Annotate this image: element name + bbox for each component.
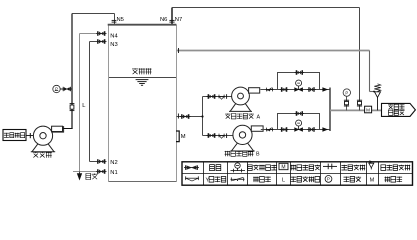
svg-text:B: B bbox=[256, 152, 260, 158]
wire pump A discharge run bbox=[260, 89, 330, 91]
pump A block valve 1 bbox=[280, 87, 289, 92]
wire relief outlet elbow bbox=[370, 91, 376, 93]
label 地沟 bbox=[86, 174, 98, 180]
pump 氨水供给泵A bbox=[229, 87, 260, 111]
wire level line N3-N2 vertical bbox=[89, 42, 91, 162]
flow arrow into header (A) bbox=[322, 87, 328, 91]
svg-text:M: M bbox=[366, 108, 370, 113]
wire recirculation drop bbox=[359, 8, 361, 111]
legend label 入孔门 bbox=[385, 177, 403, 183]
legend label 压力安全阀 bbox=[381, 165, 410, 171]
wire N1 run bbox=[73, 171, 96, 173]
wire tank outlet bbox=[177, 116, 204, 118]
svg-text:N4: N4 bbox=[110, 33, 118, 39]
pressure gauge PG1 on riser bbox=[53, 85, 60, 92]
svg-text:A: A bbox=[257, 114, 261, 120]
wire pump A suction bbox=[203, 96, 232, 98]
svg-text:P: P bbox=[345, 90, 348, 95]
wire tank vapor return top run bbox=[172, 7, 360, 9]
svg-text:N7: N7 bbox=[175, 17, 182, 23]
flange N7 bbox=[169, 20, 174, 22]
pump 氨水供给泵B bbox=[230, 125, 263, 151]
legend sym safety valve bbox=[369, 161, 374, 170]
legend label 液位变送计 bbox=[290, 177, 319, 183]
flow arrow into header (B) bbox=[322, 127, 328, 131]
pump A check valve bbox=[266, 88, 274, 92]
label 卸车泵 bbox=[33, 152, 52, 158]
wire pump B discharge run bbox=[261, 129, 330, 131]
pump B suction strainer bbox=[218, 134, 225, 139]
pump A suction strainer bbox=[218, 95, 225, 100]
svg-text:N2: N2 bbox=[110, 160, 117, 166]
pump A bypass loop bbox=[278, 73, 320, 90]
legend sym check valve bbox=[231, 177, 245, 181]
legend label 压力表 bbox=[344, 177, 362, 183]
inline fitting on riser bbox=[70, 104, 75, 111]
svg-text:N1: N1 bbox=[110, 170, 117, 176]
wire level line N4-N1 vertical bbox=[79, 34, 81, 172]
wire N5 riser bbox=[114, 14, 116, 25]
valve at N4 bbox=[96, 31, 107, 36]
pump A block valve 2 bbox=[307, 87, 316, 92]
svg-text:L: L bbox=[282, 177, 285, 183]
pump 卸车泵 unloading pump bbox=[31, 126, 64, 152]
discharge nozzle bbox=[52, 126, 63, 131]
pressure gauge PG2 bbox=[343, 89, 350, 96]
pump B bypass loop bbox=[278, 114, 320, 130]
wire gauge stem bbox=[346, 96, 348, 110]
legend table bbox=[182, 162, 413, 185]
tank left wall bbox=[108, 25, 110, 182]
wire fill line top run bbox=[72, 13, 115, 15]
wire gauge branch bbox=[60, 88, 72, 90]
legend sym Y strainer bbox=[185, 176, 199, 181]
pump B bypass valve bbox=[295, 111, 305, 116]
svg-text:N3: N3 bbox=[110, 42, 117, 48]
svg-text:M: M bbox=[181, 134, 186, 140]
drain arrow to trench bbox=[77, 172, 81, 180]
wire N4 stub bbox=[80, 33, 97, 35]
pump B check valve bbox=[266, 128, 274, 132]
label 氨水供给泵A bbox=[225, 114, 254, 119]
legend sym ball valve bbox=[184, 165, 199, 170]
wire relief outlet drop bbox=[369, 51, 371, 92]
gauge root valve bbox=[63, 87, 70, 91]
legend label 电磁流量计 bbox=[290, 165, 320, 171]
pump B block valve 2 bbox=[307, 127, 316, 132]
svg-text:N6: N6 bbox=[160, 17, 167, 23]
legend sym flow meter bbox=[279, 163, 288, 169]
valve at N1 bbox=[96, 169, 107, 174]
gauge root fitting bbox=[344, 100, 349, 106]
pump B suction valve bbox=[207, 133, 217, 138]
svg-text:P: P bbox=[55, 86, 58, 91]
valve at N3 bbox=[96, 39, 107, 44]
label 氨水供给泵B bbox=[225, 151, 254, 156]
wire N2 stub bbox=[90, 161, 97, 163]
legend label 法兰连接 bbox=[341, 165, 365, 171]
legend label 球阀 bbox=[210, 165, 221, 171]
liquid level symbol bbox=[136, 80, 149, 86]
tank right wall bbox=[176, 25, 178, 182]
valve at N2 bbox=[96, 159, 107, 164]
legend label 逆止阀 bbox=[253, 177, 271, 183]
pump A bypass valve bbox=[295, 70, 305, 75]
tank top edge bbox=[108, 24, 177, 26]
flange N5 bbox=[112, 20, 117, 22]
wire pump discharge bbox=[54, 128, 73, 130]
svg-text:N5: N5 bbox=[117, 17, 124, 23]
wire discharge header bbox=[329, 88, 331, 132]
legend sym flange connection bbox=[323, 164, 337, 170]
liquid level line bbox=[109, 77, 176, 79]
tank bottom edge bbox=[109, 181, 177, 183]
tank truck box 氨水罐车 bbox=[3, 130, 26, 141]
wire unloading-pump discharge riser bbox=[71, 14, 73, 130]
wire N3 stub bbox=[90, 41, 97, 43]
outlet box 去稀释混合器 bbox=[382, 103, 416, 116]
legend sym electric control valve bbox=[231, 163, 246, 172]
pressure safety valve PSV bbox=[373, 84, 381, 111]
pump B control valve bbox=[295, 120, 303, 131]
svg-text:P: P bbox=[327, 177, 330, 182]
tank label 氨水罐 bbox=[132, 68, 152, 74]
legend sym pressure gauge bbox=[325, 176, 332, 183]
wire main discharge line bbox=[330, 109, 382, 111]
wire relief return line bbox=[177, 50, 370, 52]
wire suction manifold vertical bbox=[202, 97, 204, 136]
wire truck to pump suction bbox=[26, 135, 33, 137]
pump A control valve bbox=[295, 80, 303, 91]
manhole M on tank right wall bbox=[176, 131, 179, 142]
tank outlet valve bbox=[180, 114, 191, 119]
recirculation root fitting bbox=[357, 100, 362, 106]
suction flange bbox=[29, 133, 31, 138]
electromagnetic flow meter FM bbox=[365, 106, 372, 113]
wire pump B suction bbox=[203, 135, 234, 137]
pump B block valve 1 bbox=[280, 127, 289, 132]
svg-text:M: M bbox=[281, 165, 285, 171]
wire N7 riser bbox=[171, 8, 173, 25]
pump A suction valve bbox=[207, 94, 217, 99]
svg-text:M: M bbox=[370, 178, 375, 184]
legend label 电动调节阀 bbox=[248, 165, 277, 171]
